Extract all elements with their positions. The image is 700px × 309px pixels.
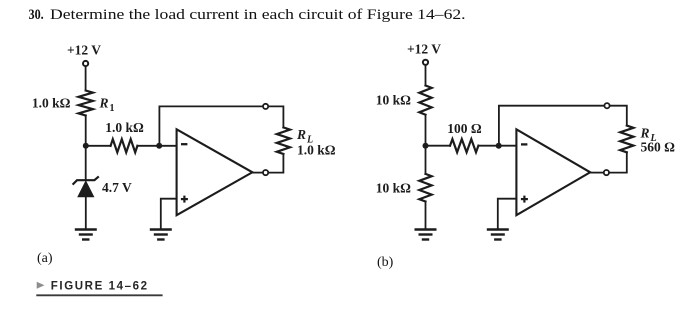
node +12V supply terminal (a) (83, 61, 88, 66)
node load terminal bottom (a) (263, 170, 268, 175)
figure caption arrow (37, 282, 45, 289)
svg-text:1.0 kΩ: 1.0 kΩ (297, 143, 336, 158)
ground (divider b) (415, 230, 437, 240)
svg-text:FIGURE 14–62: FIGURE 14–62 (51, 281, 149, 293)
op-amp U1 triangle (a) (177, 129, 253, 215)
wire feedback up from inverting node (a) (159, 106, 262, 145)
node load terminal top (b) (604, 103, 609, 108)
wire RL bottom to load terminal (b) (610, 152, 627, 172)
svg-text:+12 V: +12 V (407, 42, 441, 57)
resistor 10 kOhm lower (b) (419, 174, 431, 202)
wire op-amp output to terminal (b) (590, 172, 603, 174)
op-amp U2 triangle (b) (516, 129, 590, 215)
wire op-amp output to terminal (a) (252, 172, 262, 174)
wire lower 10k to ground (b) (425, 202, 427, 230)
resistor RL 560 Ohm (b) (620, 126, 633, 153)
node inverting input junction (a) (156, 143, 162, 149)
op-amp U2 minus input mark (521, 143, 527, 145)
figure caption underline (36, 294, 162, 296)
wire terminal to RL top (a) (269, 106, 284, 127)
op-amp U2 plus input mark (521, 196, 528, 203)
wire R1 to node A (85, 116, 87, 181)
node B junction dot (b) (423, 143, 429, 149)
resistor 100 Ohm horizontal (b) (450, 139, 478, 152)
resistor RL 1.0 kOhm (a) (277, 127, 290, 154)
svg-text:560 Ω: 560 Ω (641, 140, 676, 155)
wire node B to 100 ohm (426, 145, 451, 147)
svg-text:+12 V: +12 V (67, 43, 101, 58)
svg-text:1.0 kΩ: 1.0 kΩ (105, 120, 144, 135)
node inverting input junction (b) (496, 143, 502, 149)
svg-text:(b): (b) (377, 255, 394, 270)
svg-text:R: R (640, 126, 650, 141)
resistor 1.0 kOhm horizontal (a) (111, 139, 138, 152)
ground (op-amp a non-inverting) (150, 230, 172, 240)
svg-text:4.7 V: 4.7 V (102, 180, 132, 195)
node A junction dot (a) (83, 143, 89, 149)
wire node A to input resistor (86, 145, 111, 147)
wire supply to R1 (b) (425, 66, 427, 86)
wire plus input to ground (a) (161, 199, 177, 230)
wire plus input to ground (b) (498, 199, 517, 230)
svg-text:30.: 30. (29, 6, 44, 22)
ground (op-amp b non-inverting) (487, 230, 509, 240)
op-amp U1 plus input mark (181, 196, 188, 203)
wire feedback up from inverting node (b) (499, 106, 604, 146)
svg-text:100 Ω: 100 Ω (447, 121, 482, 136)
svg-text:R: R (296, 127, 306, 142)
zener diode D1 4.7 V (73, 176, 99, 184)
wire supply to R1 (85, 67, 87, 91)
wire zener to ground (85, 197, 87, 230)
ground (zener) (75, 230, 97, 240)
wire upper 10k to node B (425, 115, 427, 174)
op-amp U1 minus input mark (181, 143, 187, 145)
svg-text:Determine the load current in: Determine the load current in each circu… (50, 7, 466, 22)
wire resistor to inverting node (a) (137, 145, 176, 147)
wire terminal to RL top (b) (610, 106, 627, 126)
node load terminal top (a) (263, 104, 268, 109)
wire 100 ohm to inverting node (b) (478, 145, 516, 147)
svg-text:(a): (a) (37, 251, 53, 266)
resistor R1 1.0 kOhm vertical (79, 91, 93, 116)
svg-text:10 kΩ: 10 kΩ (376, 181, 411, 196)
resistor 10 kOhm upper (b) (419, 86, 431, 115)
svg-text:R: R (99, 96, 109, 111)
svg-text:1: 1 (110, 103, 115, 114)
svg-text:1.0 kΩ: 1.0 kΩ (32, 96, 71, 111)
node +12V supply terminal (b) (423, 60, 428, 65)
wire RL bottom to load terminal (a) (269, 154, 284, 173)
node load terminal bottom (b) (604, 170, 609, 175)
svg-text:10 kΩ: 10 kΩ (376, 93, 411, 108)
